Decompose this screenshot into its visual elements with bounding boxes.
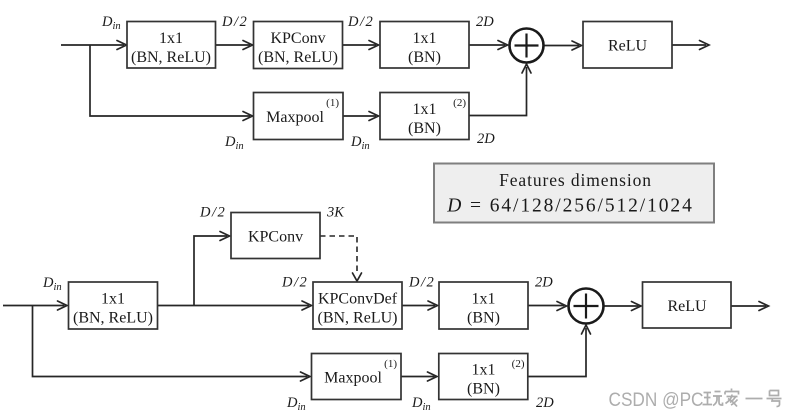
svg-text:1x1: 1x1 <box>413 101 437 118</box>
math labels top diagram <box>101 14 495 152</box>
watermark CJK glyphs drawn as paths <box>703 389 782 407</box>
svg-text:3K: 3K <box>326 205 345 221</box>
svg-text:(BN): (BN) <box>467 381 500 398</box>
sum circle bottom <box>569 289 604 324</box>
box Maxpool bottom <box>312 354 402 400</box>
box texts top diagram <box>131 30 647 137</box>
svg-text:(2): (2) <box>512 358 525 370</box>
wire sum to relu <box>544 45 579 47</box>
wire sum2 to relu2 <box>604 305 639 307</box>
box 1x1 (BN) top <box>380 22 469 69</box>
svg-text:KPConv: KPConv <box>270 30 325 47</box>
dashed wire kpconv to kpconvdef <box>320 236 357 274</box>
box KPConv bottom <box>231 213 320 259</box>
svg-text:CSDN @PC: CSDN @PC <box>609 390 704 411</box>
glyph hao (number) <box>767 391 782 407</box>
svg-text:Din: Din <box>350 134 370 152</box>
svg-text:D/2: D/2 <box>281 275 307 291</box>
svg-text:ReLU: ReLU <box>667 298 707 315</box>
boxes <box>69 22 732 400</box>
svg-text:Din: Din <box>224 134 244 152</box>
box ReLU bottom <box>643 282 732 328</box>
svg-text:D/2: D/2 <box>408 275 434 291</box>
wire box3 to sum <box>469 44 505 46</box>
svg-text:2D: 2D <box>536 395 554 411</box>
svg-text:D/2: D/2 <box>221 14 247 30</box>
box KPConv top <box>254 22 343 69</box>
wire 1x1bn2 to sum vertical <box>469 67 527 116</box>
wire box2 to box3 <box>343 44 377 46</box>
svg-text:(BN, ReLU): (BN, ReLU) <box>318 310 398 327</box>
svg-text:D/2: D/2 <box>347 14 373 30</box>
svg-text:(1): (1) <box>384 358 397 370</box>
wire relu output <box>672 44 706 46</box>
svg-text:(BN): (BN) <box>408 120 441 137</box>
wire top branch down to maxpool row <box>90 45 250 116</box>
svg-text:Features dimension: Features dimension <box>499 170 652 190</box>
svg-text:Din: Din <box>42 275 62 293</box>
svg-text:Din: Din <box>411 395 431 413</box>
svg-text:1x1: 1x1 <box>413 30 437 47</box>
svg-text:(BN, ReLU): (BN, ReLU) <box>73 310 153 327</box>
features dimension text <box>446 170 693 217</box>
svg-text:Din: Din <box>286 395 306 413</box>
svg-text:(BN): (BN) <box>467 310 500 327</box>
box 1x1 (BN, ReLU) bottom <box>69 282 158 329</box>
svg-text:(BN, ReLU): (BN, ReLU) <box>258 49 338 66</box>
svg-text:D = 64/128/256/512/1024: D = 64/128/256/512/1024 <box>446 196 693 217</box>
arrowheads <box>58 41 769 382</box>
svg-text:(BN, ReLU): (BN, ReLU) <box>131 49 211 66</box>
box 1x1 (BN) bottom <box>439 282 528 329</box>
svg-text:Maxpool: Maxpool <box>266 109 324 126</box>
box 1x1 (BN)(2) top <box>380 93 469 140</box>
box texts bottom diagram <box>73 229 707 398</box>
box KPConvDef <box>313 282 402 329</box>
math labels bottom diagram <box>42 205 554 414</box>
glyph jia (home) <box>725 389 739 407</box>
wire maxpool2 to 1x1bn2b <box>401 376 435 378</box>
svg-text:1x1: 1x1 <box>472 362 496 379</box>
svg-text:Maxpool: Maxpool <box>324 370 382 387</box>
svg-text:1x1: 1x1 <box>472 291 496 308</box>
wire 1x1bn to sum2 <box>528 305 564 307</box>
svg-text:(BN): (BN) <box>408 49 441 66</box>
wire c1 to kpconvdef <box>158 305 310 307</box>
svg-text:KPConvDef: KPConvDef <box>318 291 398 308</box>
wire bottom branch down <box>33 306 308 377</box>
wire box1 to box2 <box>216 44 251 46</box>
glyph yi (one) <box>746 398 763 400</box>
wire kpconvdef to 1x1bn <box>402 305 435 307</box>
wire 1x1bn2b to sum2 vertical <box>528 328 586 377</box>
svg-text:2D: 2D <box>476 14 494 30</box>
svg-text:KPConv: KPConv <box>248 229 303 246</box>
svg-text:ReLU: ReLU <box>608 38 648 55</box>
svg-text:2D: 2D <box>477 131 495 147</box>
svg-text:(2): (2) <box>453 97 466 109</box>
box Maxpool top <box>254 93 344 140</box>
wire top input <box>61 44 124 46</box>
glyph wan (play) <box>703 392 723 406</box>
wire maxpool to 1x1bn2 <box>343 115 376 117</box>
box ReLU top <box>583 22 672 69</box>
box 1x1 (BN)(2) bottom <box>439 354 528 400</box>
box 1x1 (BN, ReLU) top <box>127 22 216 69</box>
svg-text:Din: Din <box>101 14 121 32</box>
features dimension box <box>434 164 714 223</box>
svg-text:D/2: D/2 <box>199 205 225 221</box>
svg-text:1x1: 1x1 <box>101 291 125 308</box>
svg-text:1x1: 1x1 <box>159 30 183 47</box>
sum circle top <box>510 29 544 63</box>
svg-text:(1): (1) <box>326 97 339 109</box>
svg-text:2D: 2D <box>535 275 553 291</box>
wire relu2 output <box>731 305 766 307</box>
wire branch up to kpconv <box>194 236 227 306</box>
wire bottom input <box>3 305 65 307</box>
